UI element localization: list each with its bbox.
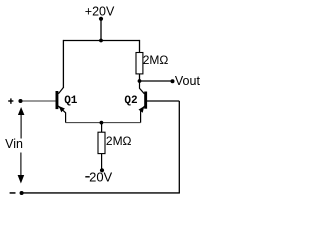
wire: Q2 base lead (147, 100, 179, 102)
-20V terminal dot (100, 168, 104, 172)
label + input (8, 98, 13, 103)
wire: top rail (63, 40, 139, 42)
wire: right branch to R1 (139, 40, 141, 53)
svg-text:Vout: Vout (175, 74, 201, 88)
wire: right vertical (base to bottom rail) (178, 101, 180, 193)
svg-text:20V: 20V (89, 169, 112, 184)
+ input terminal dot (18, 99, 22, 103)
wire: tail resistor bottom lead (101, 154, 103, 171)
node: tail junction (100, 121, 104, 125)
svg-text:Q2: Q2 (124, 95, 137, 107)
svg-text:Vin: Vin (5, 137, 23, 151)
wire: +20V stem (100, 19, 102, 41)
svg-text:+20V: +20V (85, 5, 115, 19)
Vout terminal dot (171, 79, 175, 83)
transistor Q1 (PNP) (56, 91, 66, 123)
wire: emitter tail rail (66, 122, 141, 124)
transistor Q2 (PNP) (139, 92, 148, 123)
wire: Q1 collector diagonal (58, 88, 63, 94)
node: top rail junction (99, 39, 103, 43)
- input terminal dot (20, 191, 24, 195)
label - input (10, 192, 16, 194)
resistor R1 2M ohm (136, 53, 143, 74)
node: collector/Vout junction (138, 79, 142, 83)
svg-text:Q1: Q1 (64, 95, 78, 107)
wire: Q2 collector drop (140, 81, 145, 94)
wire: tail resistor top lead (101, 123, 103, 133)
+20V terminal dot (99, 17, 103, 21)
wire: bottom rail (22, 192, 180, 194)
wire: to Vout (140, 80, 173, 82)
svg-text:2MΩ: 2MΩ (143, 53, 169, 67)
Vin down arrow (18, 153, 25, 184)
wire: Q1 base lead (21, 100, 56, 102)
Vin up arrow (18, 107, 25, 139)
resistor R2 2M ohm (tail) (98, 132, 105, 153)
wire: left branch to Q1 collector (62, 40, 64, 88)
wire: R1 bottom lead (139, 74, 141, 81)
svg-text:2MΩ: 2MΩ (106, 134, 132, 148)
supply label -20V (85, 169, 112, 184)
